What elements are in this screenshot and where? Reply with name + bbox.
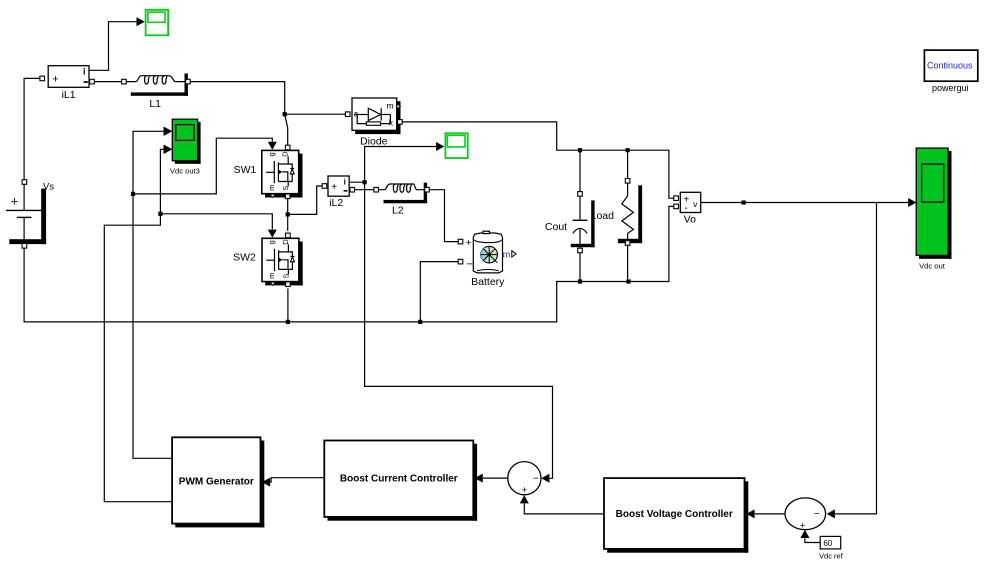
svg-text:D: D bbox=[281, 151, 290, 157]
svg-text:-: - bbox=[684, 203, 687, 214]
svg-text:m: m bbox=[386, 100, 393, 110]
svg-text:Continuous: Continuous bbox=[927, 61, 973, 71]
svg-text:Vo: Vo bbox=[684, 214, 696, 226]
svg-text:Vdc out3: Vdc out3 bbox=[170, 167, 200, 176]
svg-text:60: 60 bbox=[823, 539, 832, 548]
svg-text:+: + bbox=[522, 485, 528, 496]
svg-text:k: k bbox=[389, 118, 394, 128]
svg-text:iL2: iL2 bbox=[329, 197, 343, 209]
svg-text:Boost Current Controller: Boost Current Controller bbox=[340, 474, 458, 485]
svg-text:L2: L2 bbox=[392, 205, 404, 217]
svg-text:−: − bbox=[814, 509, 820, 520]
svg-text:powergui: powergui bbox=[932, 83, 969, 93]
svg-text:SW2: SW2 bbox=[233, 251, 256, 263]
svg-text:SW1: SW1 bbox=[234, 164, 257, 176]
svg-text:m: m bbox=[267, 185, 276, 191]
svg-text:g: g bbox=[267, 240, 276, 244]
svg-text:D: D bbox=[281, 239, 290, 245]
svg-text:Load: Load bbox=[591, 210, 615, 222]
svg-text:m: m bbox=[267, 273, 276, 279]
svg-text:v: v bbox=[693, 199, 698, 209]
svg-text:g: g bbox=[267, 152, 276, 156]
svg-text:S: S bbox=[281, 274, 290, 279]
svg-text:L1: L1 bbox=[149, 98, 161, 110]
svg-text:+: + bbox=[331, 182, 337, 193]
svg-text:i: i bbox=[83, 66, 86, 76]
svg-text:Vdc ref: Vdc ref bbox=[819, 552, 844, 561]
svg-text:Battery: Battery bbox=[471, 276, 505, 288]
svg-text:a: a bbox=[354, 110, 359, 119]
svg-text:+: + bbox=[466, 238, 472, 249]
svg-text:iL1: iL1 bbox=[62, 89, 76, 101]
svg-text:+: + bbox=[11, 193, 19, 208]
svg-text:i: i bbox=[344, 177, 346, 186]
svg-text:−: − bbox=[466, 259, 472, 271]
svg-text:−: − bbox=[533, 473, 539, 484]
svg-text:Cout: Cout bbox=[545, 221, 567, 233]
svg-text:Vdc out: Vdc out bbox=[919, 262, 946, 271]
svg-text:+: + bbox=[800, 520, 806, 531]
svg-text:Boost Voltage Controller: Boost Voltage Controller bbox=[616, 509, 733, 520]
svg-text:+: + bbox=[52, 74, 58, 86]
svg-text:Diode: Diode bbox=[360, 135, 388, 147]
svg-text:PWM Generator: PWM Generator bbox=[179, 476, 254, 487]
svg-text:Vs: Vs bbox=[43, 182, 54, 193]
svg-text:m: m bbox=[503, 250, 511, 260]
svg-text:S: S bbox=[281, 186, 290, 191]
